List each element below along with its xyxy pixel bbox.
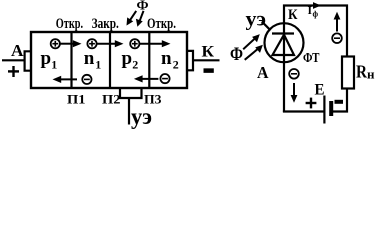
svg-text:Ф: Ф xyxy=(230,45,243,65)
light arrow to thyristor lower xyxy=(245,45,263,60)
svg-text:Откр.: Откр. xyxy=(56,16,83,32)
wire bottom left to battery xyxy=(283,110,325,112)
svg-text:А: А xyxy=(257,63,269,82)
svg-text:ф: ф xyxy=(313,10,319,19)
junction P2 divider xyxy=(109,32,111,88)
load resistor Rn xyxy=(342,57,354,89)
electron symbol left branch xyxy=(289,69,299,79)
svg-text:уэ: уэ xyxy=(131,104,152,129)
svg-text:Откр.: Откр. xyxy=(147,16,176,32)
thyristor triangle xyxy=(273,35,295,55)
thyristor cathode bar xyxy=(272,32,294,34)
svg-text:n: n xyxy=(84,48,95,69)
structure box p1-n1-p2-n2 xyxy=(31,32,187,88)
svg-text:н: н xyxy=(367,67,375,82)
anode contact bracket xyxy=(25,51,31,70)
battery short plate xyxy=(329,101,333,116)
svg-text:p: p xyxy=(41,48,52,69)
gate lead of thyristor xyxy=(262,22,271,31)
svg-text:1: 1 xyxy=(51,58,57,72)
hole symbol plus in p2 xyxy=(130,39,139,48)
hole symbol plus in p1 xyxy=(51,39,60,48)
wire cathode lead + top wire + right wire upper xyxy=(284,6,347,113)
svg-text:1: 1 xyxy=(95,58,101,72)
electron symbol right branch xyxy=(332,33,342,43)
arrow electron flow across P3 xyxy=(134,75,159,82)
cathode minus sign xyxy=(204,68,214,73)
junction P3 divider xyxy=(148,32,150,88)
light arrow to thyristor upper xyxy=(243,34,260,49)
svg-text:К: К xyxy=(202,44,215,61)
current arrowhead on top wire xyxy=(313,2,321,9)
svg-text:2: 2 xyxy=(173,58,179,72)
gate contact bracket under p2 xyxy=(120,88,142,98)
svg-text:К: К xyxy=(288,7,298,23)
hole symbol plus in n1 xyxy=(87,39,96,48)
battery long plate xyxy=(323,96,325,124)
wire anode lead xyxy=(2,59,25,61)
svg-text:ФТ: ФТ xyxy=(303,51,320,66)
electron flow arrow down left branch xyxy=(291,83,298,103)
wire battery to resistor xyxy=(331,89,347,112)
arrow hole flow across P2 xyxy=(97,40,124,47)
svg-text:А: А xyxy=(11,41,24,60)
svg-text:p: p xyxy=(122,48,133,69)
cathode contact bracket xyxy=(187,51,193,70)
arrow hole flow across P3 xyxy=(140,40,171,47)
svg-text:уэ: уэ xyxy=(246,9,267,30)
svg-text:П1: П1 xyxy=(67,93,86,107)
electron flow arrow up right branch xyxy=(334,12,341,32)
light arrow into p2 right xyxy=(136,11,144,27)
electron symbol minus in n1 xyxy=(82,75,91,84)
battery minus sign xyxy=(335,100,344,104)
anode plus sign xyxy=(8,66,19,77)
wire cathode lead xyxy=(193,59,220,61)
gate wire stem xyxy=(128,98,130,125)
battery plus sign xyxy=(306,98,317,109)
light arrow into p2 left xyxy=(127,11,137,26)
junction P1 divider xyxy=(70,32,72,88)
svg-text:Е: Е xyxy=(315,82,325,99)
arrow electron flow across P1 xyxy=(53,76,78,83)
svg-text:Закр.: Закр. xyxy=(92,16,119,32)
photothyristor circle FT xyxy=(265,23,304,62)
svg-text:2: 2 xyxy=(132,58,138,72)
svg-text:П2: П2 xyxy=(102,93,121,107)
svg-text:n: n xyxy=(161,48,172,69)
arrow hole flow across P1 xyxy=(60,40,81,47)
electron symbol minus in n2 xyxy=(160,74,169,83)
